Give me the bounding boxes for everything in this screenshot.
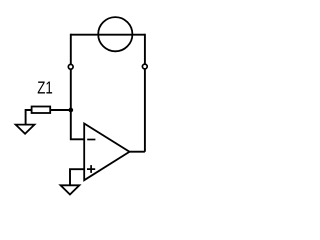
node: left open terminal on left branch bbox=[68, 64, 73, 69]
wire: right vertical branch bbox=[144, 34, 146, 152]
wire: left vertical branch down to inverting input corner bbox=[70, 34, 72, 140]
junction: solder dot at Z1 / left branch bbox=[68, 108, 73, 113]
wire: Z1 right lead to junction bbox=[50, 109, 71, 111]
wire: inverting input horizontal segment bbox=[70, 138, 84, 140]
ground (bottom, at non-inverting input) bbox=[61, 185, 80, 194]
op-amp inverting input marker (minus) bbox=[87, 139, 95, 141]
ground (left, below Z1) bbox=[16, 125, 35, 134]
node: right open terminal on right branch bbox=[142, 64, 147, 69]
svg-text:Z1: Z1 bbox=[37, 79, 53, 98]
wire: non-inverting input segment and drop to ground bbox=[70, 169, 84, 185]
wire: Z1 left lead and drop to ground bbox=[26, 110, 32, 125]
current source I1 (circle on top wire) bbox=[98, 17, 132, 51]
wire: top horizontal from left branch to right branch bbox=[71, 34, 145, 36]
op-amp U1 (triangle body) bbox=[84, 124, 129, 181]
impedance Z1 (box body) bbox=[32, 107, 51, 114]
wire: op-amp output to right branch bbox=[130, 151, 145, 153]
op-amp non-inverting input marker (plus) bbox=[87, 165, 95, 173]
